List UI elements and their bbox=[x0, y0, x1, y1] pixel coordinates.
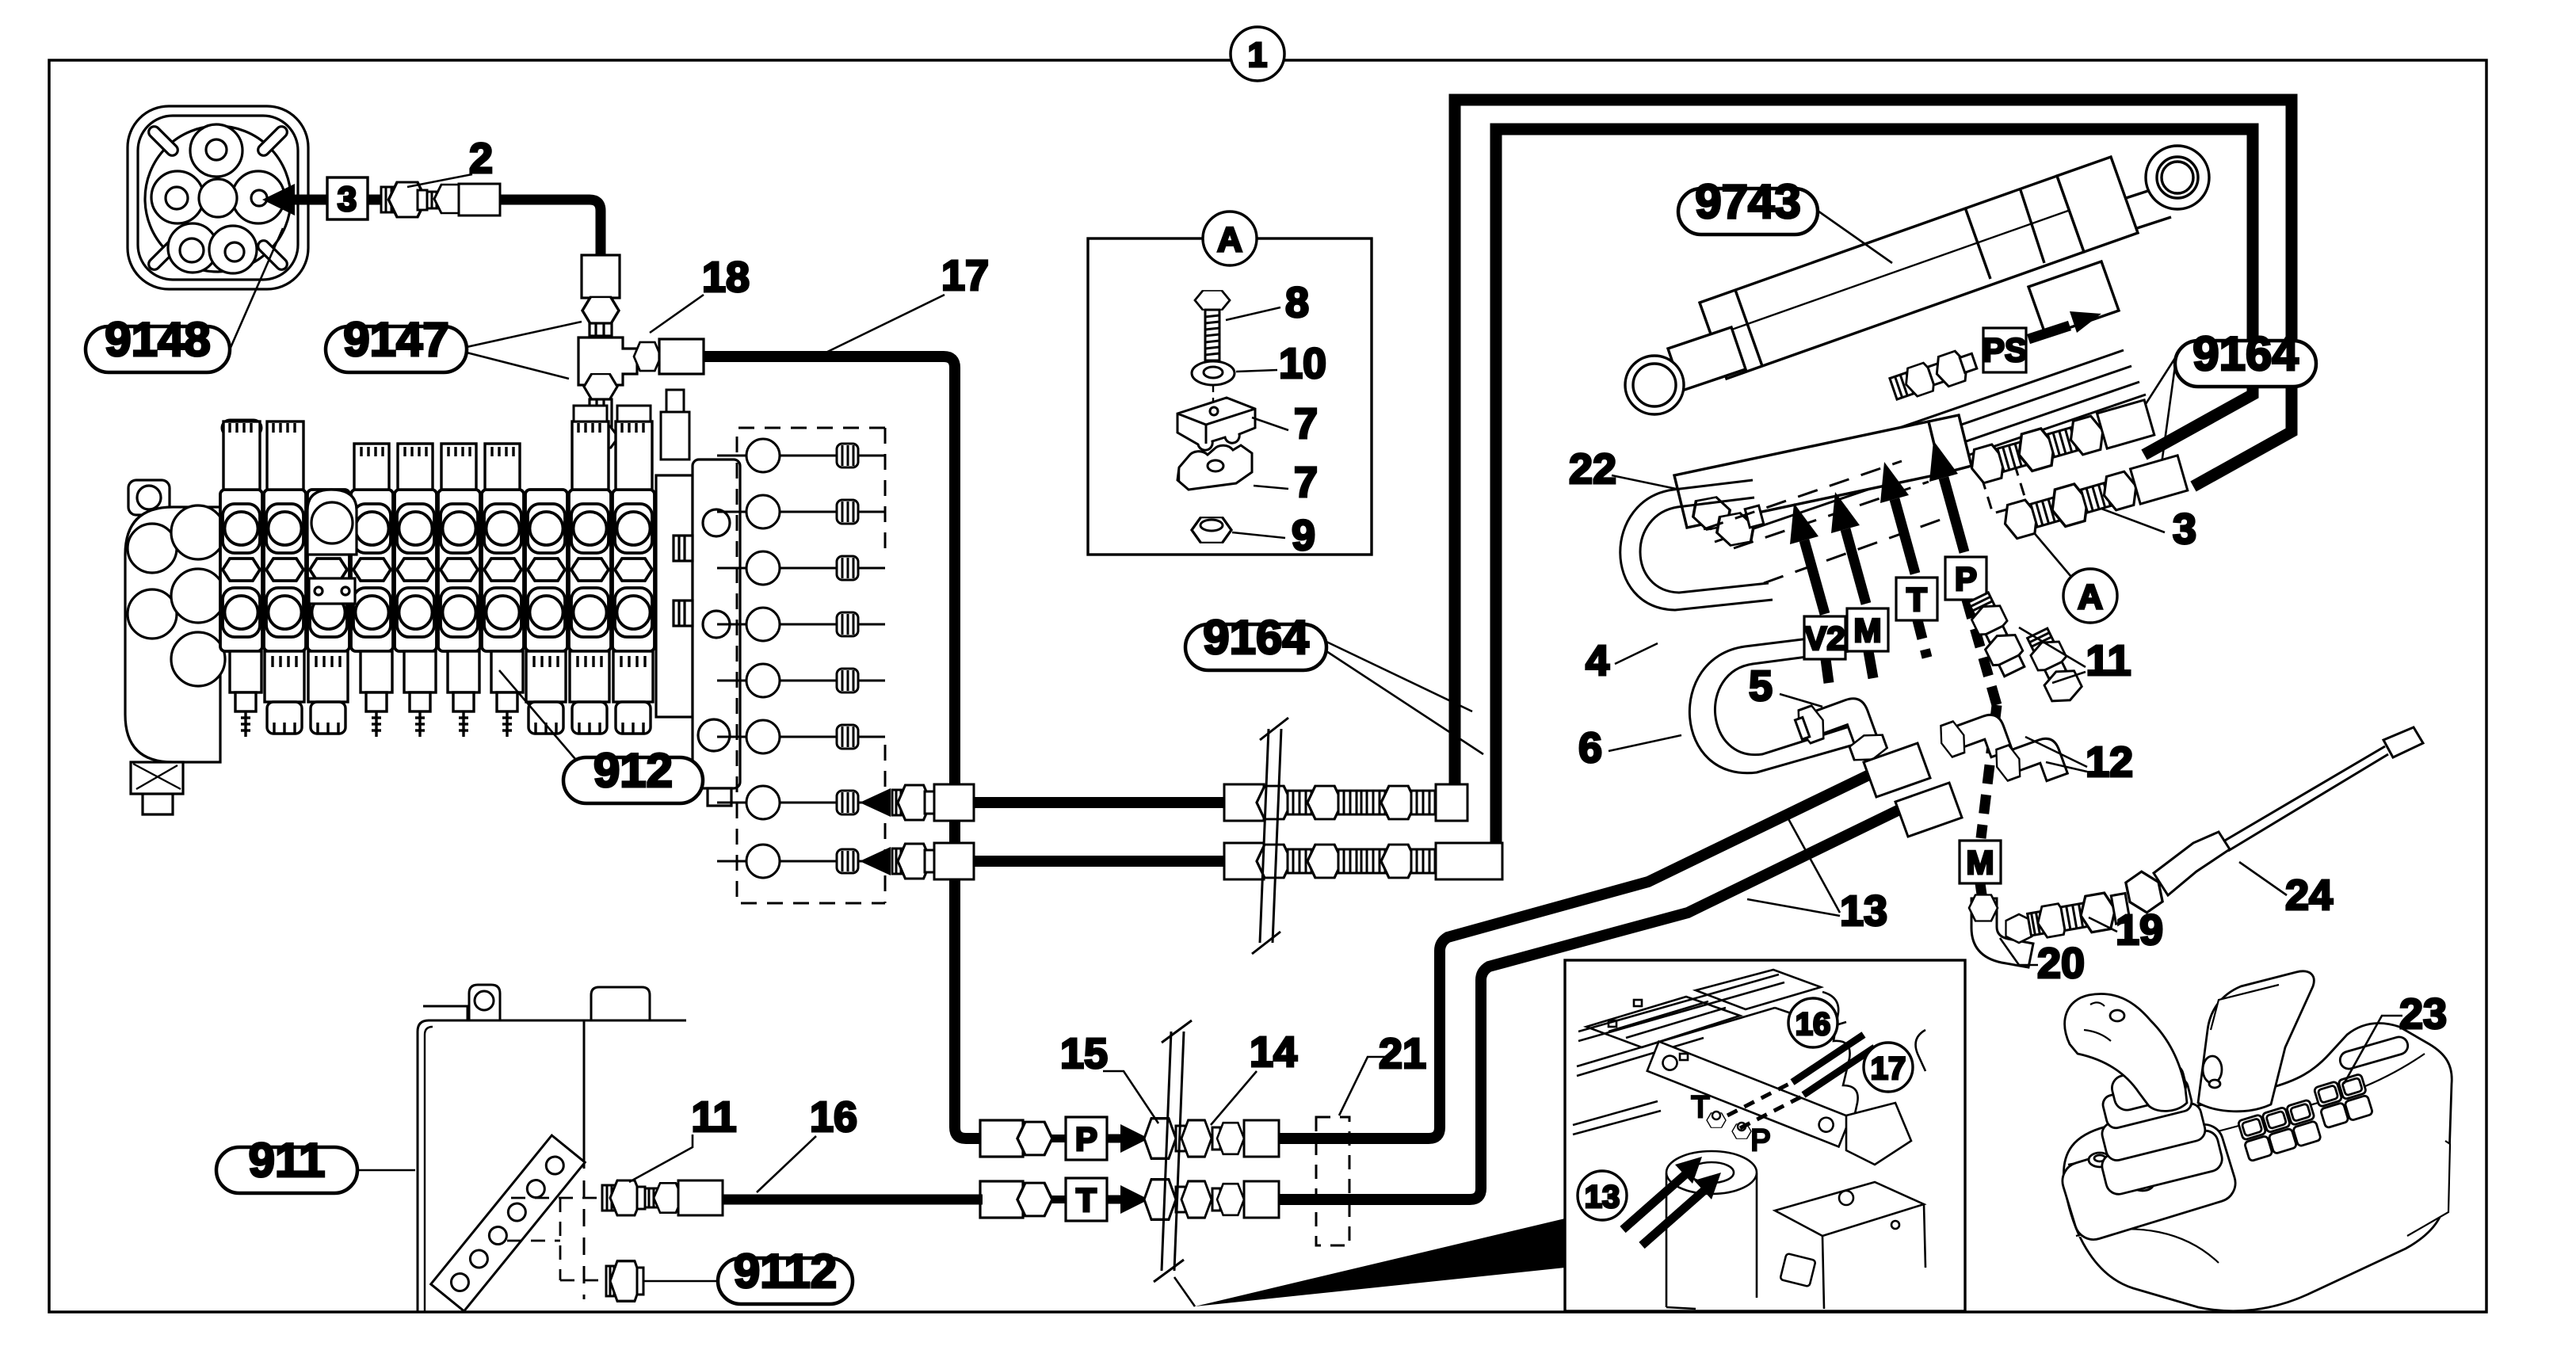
svg-text:9148: 9148 bbox=[105, 313, 210, 366]
joystick grip bbox=[2109, 1062, 2189, 1113]
nut 9 bbox=[1192, 517, 1231, 543]
port box P bbox=[1945, 557, 1986, 600]
svg-text:23: 23 bbox=[2399, 990, 2447, 1038]
port box P (bottom) bbox=[1066, 1117, 1107, 1160]
inset hoses 13 arrows bbox=[1623, 1171, 1689, 1230]
svg-text:T: T bbox=[1906, 581, 1927, 618]
port box M (lower) bbox=[1960, 841, 2001, 883]
joystick armrest tower bbox=[2198, 971, 2314, 1112]
hose end fittings on 13 bbox=[1864, 743, 1962, 837]
svg-text:9164: 9164 bbox=[1203, 611, 1309, 664]
swivel center boss bbox=[199, 179, 237, 217]
svg-text:9743: 9743 bbox=[1695, 175, 1800, 228]
swivel face circle bbox=[145, 126, 291, 272]
svg-text:16: 16 bbox=[1796, 1007, 1831, 1042]
valve outlet end block bbox=[656, 460, 740, 806]
swivel corner slot SE bbox=[256, 238, 289, 272]
port box M bbox=[1847, 608, 1888, 651]
svg-text:P: P bbox=[1075, 1120, 1097, 1157]
elbow 20 bbox=[1969, 895, 2033, 968]
cylinder base tube bbox=[1668, 327, 1746, 391]
svg-text:15: 15 bbox=[1060, 1030, 1108, 1077]
joystick bellows bbox=[2086, 1073, 2225, 1197]
svg-text:19: 19 bbox=[2116, 906, 2163, 954]
joystick top slot bbox=[2338, 1035, 2410, 1070]
label 9147 bbox=[326, 313, 582, 379]
swivel port S bbox=[209, 226, 257, 273]
bulkhead pass symbol (middle) bbox=[1252, 718, 1288, 954]
detail wedge pointer bbox=[1195, 1218, 1565, 1306]
hose loop (inner frame) to boom head bbox=[1496, 129, 2253, 857]
svg-text:A: A bbox=[2078, 578, 2103, 616]
svg-text:11: 11 bbox=[2086, 637, 2131, 685]
coupling chain upper (9164 right) bbox=[1967, 399, 2154, 487]
svg-text:T: T bbox=[1691, 1091, 1709, 1124]
label 911 bbox=[216, 1134, 415, 1193]
connection box 3 bbox=[327, 177, 368, 219]
arrow P into plate bbox=[1944, 478, 1964, 552]
label 912 bbox=[499, 670, 703, 803]
port box T bbox=[1896, 578, 1937, 620]
fitting chain 19 bbox=[2026, 890, 2131, 943]
label 9743 bbox=[1678, 175, 1892, 263]
svg-text:6: 6 bbox=[1578, 724, 1602, 772]
arrow T into plate bbox=[1895, 499, 1915, 574]
svg-text:16: 16 bbox=[810, 1093, 857, 1141]
hose run upper (to bulkhead plate) bbox=[860, 784, 1467, 821]
bulkhead pass symbol (bottom) bbox=[1154, 1020, 1192, 1282]
bolt 8 bbox=[1195, 291, 1230, 360]
fittings 11 (union cluster) bbox=[1963, 590, 2029, 679]
swivel port N bbox=[190, 124, 242, 177]
inset deck frame bbox=[1578, 974, 1779, 1032]
steel pipes (item 3 pair) bbox=[1698, 350, 2146, 542]
svg-text:912: 912 bbox=[593, 744, 673, 797]
swivel port E bbox=[232, 171, 284, 223]
svg-text:3: 3 bbox=[338, 180, 357, 219]
svg-text:M: M bbox=[1854, 612, 1882, 649]
adapter 11 on tank line bbox=[602, 1180, 723, 1215]
label 9164 (right) bbox=[2131, 327, 2316, 475]
hose 17 from tee to bulkhead P line bbox=[704, 357, 983, 1138]
hose from swivel to tee (item 17 feed) bbox=[368, 200, 601, 255]
inset T/P nuts bbox=[1707, 1112, 1751, 1138]
svg-text:5: 5 bbox=[1749, 662, 1773, 710]
arrow V2 into plate bbox=[1804, 540, 1825, 614]
cylinder rod bbox=[2126, 187, 2160, 198]
svg-text:P: P bbox=[1955, 560, 1977, 597]
svg-text:13: 13 bbox=[1840, 887, 1887, 935]
detail inset box bbox=[1565, 960, 1965, 1311]
inset lower frame blocks bbox=[1775, 1182, 1924, 1236]
elbow 5 bbox=[1792, 686, 1889, 780]
label 9148 bbox=[86, 228, 283, 372]
elbows 12 bbox=[1936, 706, 2012, 772]
swivel port W bbox=[151, 171, 204, 223]
svg-text:7: 7 bbox=[1294, 459, 1318, 506]
svg-text:9164: 9164 bbox=[2192, 327, 2299, 380]
tee fitting stack on valve inlet (9147) bbox=[578, 255, 704, 460]
dashed clamp rect (A position) bbox=[1979, 458, 2027, 513]
label 9112 bbox=[643, 1245, 853, 1304]
svg-text:3: 3 bbox=[2173, 505, 2196, 553]
coupling chain lower (9164 right) bbox=[2000, 455, 2188, 543]
swivel corner slot SW bbox=[147, 238, 180, 272]
svg-text:M: M bbox=[1967, 844, 1994, 881]
joystick base plate bbox=[2058, 1119, 2240, 1244]
base end ring bbox=[1625, 356, 1684, 414]
svg-text:14: 14 bbox=[1250, 1028, 1297, 1076]
balloon A on detail box bbox=[1203, 212, 1257, 265]
dashed pilot lines under plate bbox=[1704, 461, 1949, 583]
rod end ring bbox=[2146, 146, 2209, 209]
svg-text:9147: 9147 bbox=[343, 313, 448, 366]
inset mounting bar bbox=[1647, 1042, 1850, 1147]
balloon 17 bbox=[1864, 1043, 1913, 1092]
cylinder 9743 barrel bbox=[1625, 146, 2209, 414]
dashed locating lines bbox=[507, 1198, 604, 1280]
P line chain (bottom) bbox=[980, 1120, 1066, 1157]
swivel corner slot NW bbox=[147, 124, 180, 158]
svg-text:7: 7 bbox=[1294, 400, 1318, 448]
PS pilot fitting chain bbox=[1888, 346, 1979, 404]
valve sections bbox=[220, 490, 262, 651]
label 9164 (hoses group, center) bbox=[1185, 611, 1483, 754]
svg-text:A: A bbox=[1217, 220, 1242, 259]
inset scalloped frame edge bbox=[1822, 992, 1858, 1131]
hose 13 upper (P feed) bbox=[1277, 762, 1895, 1138]
svg-text:911: 911 bbox=[249, 1134, 326, 1187]
PS arrow bbox=[2028, 326, 2070, 339]
ladder rungs with bolts bbox=[717, 439, 885, 472]
balloon 16 bbox=[1788, 998, 1838, 1047]
piston block under barrel bbox=[2028, 261, 2119, 336]
svg-text:11: 11 bbox=[691, 1093, 736, 1141]
T line chain (bottom) bbox=[980, 1181, 1066, 1218]
throttle cable 24 bbox=[2120, 727, 2423, 917]
svg-text:4: 4 bbox=[1586, 637, 1609, 685]
hose 13 lower (T feed) bbox=[1277, 796, 1927, 1199]
svg-text:10: 10 bbox=[1279, 340, 1326, 387]
stubs below port boxes bbox=[1826, 659, 1829, 683]
bulkhead union 15/14 (P) bbox=[1144, 1119, 1279, 1159]
hose loop 4 bbox=[1620, 480, 1773, 610]
joystick console body bbox=[2058, 971, 2452, 1311]
valve bank 912 : inlet end block bbox=[125, 480, 225, 814]
manifold plate 22 bbox=[1674, 415, 1971, 528]
svg-text:18: 18 bbox=[702, 254, 750, 301]
hose loop (outer frame) to boom head bbox=[1455, 100, 2292, 799]
hose 16 to T bulkhead bbox=[723, 1195, 983, 1205]
balloon A (clamp position) bbox=[2063, 569, 2117, 623]
svg-text:17: 17 bbox=[941, 252, 989, 299]
drilled mounting strip bbox=[431, 1135, 586, 1311]
port box T (bottom) bbox=[1066, 1178, 1107, 1221]
arrow into swivel port E bbox=[273, 195, 333, 205]
svg-text:8: 8 bbox=[1285, 279, 1309, 326]
tank bracket plate 911 bbox=[418, 985, 686, 1312]
svg-text:21: 21 bbox=[1379, 1030, 1426, 1077]
svg-text:13: 13 bbox=[1585, 1180, 1620, 1215]
svg-text:T: T bbox=[1076, 1181, 1097, 1218]
clamp half 7 (upper) bbox=[1177, 398, 1255, 450]
svg-text:9112: 9112 bbox=[734, 1245, 837, 1298]
svg-text:17: 17 bbox=[1871, 1051, 1906, 1086]
union fitting 2 bbox=[381, 182, 500, 217]
port box V2 bbox=[1804, 616, 1845, 659]
dashed sleeve 21 bbox=[1316, 1117, 1349, 1245]
swivel port SW bbox=[168, 223, 217, 273]
hose loop 6 bbox=[1689, 634, 1868, 773]
hose run lower (to bulkhead plate) bbox=[860, 843, 1502, 879]
balloon 1 (sheet number) bbox=[1231, 27, 1284, 81]
joystick front step bbox=[2065, 1177, 2118, 1223]
valve bottom solenoids bbox=[230, 651, 261, 737]
bulkhead ladder (dashed plate) bbox=[737, 428, 885, 903]
joystick switch pads bbox=[2235, 1074, 2376, 1161]
svg-text:24: 24 bbox=[2285, 871, 2333, 919]
inset small holes on deck bbox=[1609, 1020, 1616, 1027]
plate bolts bbox=[1688, 496, 1764, 547]
inset tank cylinder bbox=[1666, 1151, 1757, 1194]
svg-text:22: 22 bbox=[1569, 445, 1616, 493]
swivel corner slot NE bbox=[256, 124, 289, 158]
svg-text:12: 12 bbox=[2086, 738, 2133, 786]
detail box A bbox=[1088, 238, 1372, 555]
inset pilot hoses 16/17 bbox=[1792, 1035, 1864, 1082]
svg-text:9: 9 bbox=[1292, 512, 1315, 559]
balloon 13 (inset) bbox=[1578, 1171, 1627, 1220]
plug 9112 bbox=[606, 1261, 643, 1302]
valve caps bbox=[222, 390, 689, 490]
bulkhead union 15/14 (T) bbox=[1144, 1180, 1279, 1220]
svg-text:2: 2 bbox=[469, 135, 493, 182]
washer 10 bbox=[1192, 361, 1235, 385]
swivel joint 9148 : outer housing bbox=[128, 106, 308, 289]
clamp half 7 (lower) bbox=[1177, 445, 1252, 490]
svg-text:V2: V2 bbox=[1804, 620, 1845, 657]
svg-text:1: 1 bbox=[1248, 36, 1267, 74]
valve mounting lug (center) bbox=[307, 490, 357, 604]
arrow M into plate bbox=[1845, 529, 1866, 604]
svg-text:20: 20 bbox=[2037, 940, 2085, 987]
svg-text:PS: PS bbox=[1983, 331, 2027, 368]
svg-text:P: P bbox=[1750, 1124, 1770, 1157]
PS box bbox=[1983, 328, 2026, 372]
